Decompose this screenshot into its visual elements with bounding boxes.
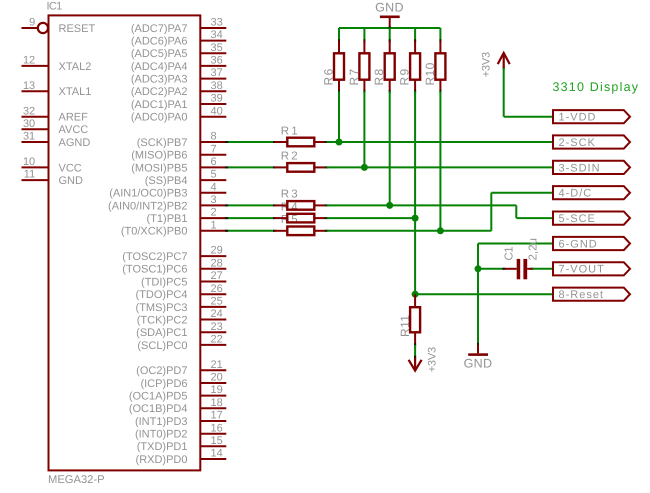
- wire net GND vertical: [477, 244, 479, 347]
- svg-text:22: 22: [211, 334, 223, 346]
- svg-text:28: 28: [211, 257, 223, 269]
- svg-text:R3: R3: [281, 189, 300, 201]
- wire pin to R1: [225, 141, 276, 143]
- resistor R7 label: [347, 67, 361, 85]
- IC1 pin 33 (ADC7)PA7: [131, 17, 226, 35]
- svg-text:27: 27: [211, 270, 223, 282]
- wire R10 top lead to GND bus: [439, 28, 441, 43]
- svg-text:9: 9: [29, 17, 35, 29]
- wire net PB1 row (R4 to R9 column): [325, 217, 415, 219]
- svg-text:13: 13: [23, 80, 35, 92]
- supply +3V3 (top) arrow: [498, 53, 510, 68]
- svg-text:GND: GND: [464, 357, 493, 371]
- resistor R5: [274, 227, 326, 236]
- svg-text:AREF: AREF: [59, 112, 89, 124]
- svg-text:15: 15: [211, 435, 223, 447]
- svg-text:5-SCE: 5-SCE: [559, 213, 596, 225]
- wire net SCE vertical jog: [515, 205, 517, 218]
- svg-text:1: 1: [211, 219, 217, 231]
- svg-text:+3V3: +3V3: [481, 52, 493, 77]
- svg-text:37: 37: [211, 67, 223, 79]
- IC1 pin 3 (AIN0/INT2)PB2: [108, 194, 226, 212]
- wire R6 bottom lead down: [338, 90, 340, 142]
- svg-text:(ADC2)PA2: (ADC2)PA2: [131, 86, 188, 98]
- IC1 pin 6 (MOSI)PB5: [131, 156, 226, 174]
- wire +3V3 vertical (top): [503, 66, 505, 116]
- svg-text:(TDI)PC5: (TDI)PC5: [141, 276, 187, 288]
- wire pin to R2: [225, 166, 276, 168]
- svg-text:(ADC5)PA5: (ADC5)PA5: [131, 48, 188, 60]
- resistor R11 label: [398, 315, 412, 337]
- svg-text:(ADC4)PA4: (ADC4)PA4: [131, 61, 188, 73]
- svg-text:16: 16: [211, 422, 223, 434]
- resistor R6: [334, 41, 344, 92]
- svg-text:21: 21: [211, 359, 223, 371]
- svg-text:XTAL2: XTAL2: [59, 61, 92, 73]
- svg-text:(ICP)PD6: (ICP)PD6: [140, 378, 187, 390]
- svg-text:2: 2: [211, 207, 217, 219]
- capacitor C1 value label 2,2u: [528, 238, 540, 260]
- svg-text:2,2u: 2,2u: [528, 238, 540, 260]
- wire net SDIN row (R2 to 3-SDIN flag): [325, 166, 553, 168]
- resistor R10: [435, 41, 445, 92]
- svg-text:R4: R4: [281, 201, 300, 213]
- net flag 3-SDIN: [553, 161, 630, 175]
- svg-text:R5: R5: [281, 214, 300, 226]
- IC1 pin 36 (ADC4)PA4: [131, 55, 226, 73]
- svg-text:(ADC0)PA0: (ADC0)PA0: [131, 112, 188, 124]
- IC1 pin 38 (ADC2)PA2: [131, 80, 226, 98]
- IC1 pin 9 RESET: [22, 17, 96, 35]
- resistor R3: [274, 201, 326, 210]
- svg-text:(OC2)PD7: (OC2)PD7: [136, 365, 187, 377]
- wire R7 bottom lead down: [363, 90, 365, 167]
- resistor R1 label: [281, 125, 300, 137]
- IC1 pin 22 (SCL)PC0: [137, 334, 226, 352]
- svg-text:12: 12: [23, 55, 35, 67]
- wire GND bus horizontal: [339, 26, 440, 29]
- svg-text:5: 5: [211, 169, 217, 181]
- wire net VDD row to 1-VDD flag: [504, 116, 553, 118]
- wire net GND row to 6-GND flag: [478, 243, 553, 245]
- junction R5/R10 node: [437, 227, 444, 234]
- svg-text:3310 Display: 3310 Display: [553, 80, 640, 94]
- resistor R3 label: [281, 189, 300, 201]
- supply +3V3 (bottom) label: [427, 347, 439, 372]
- junction R3/R8 node: [386, 202, 393, 209]
- IC1 pin 19 (OC1A)PD5: [129, 384, 226, 402]
- IC1 pin 15 (TXD)PD1: [137, 435, 227, 453]
- IC1 pin 39 (ADC1)PA1: [131, 93, 226, 111]
- resistor R5 label: [281, 214, 300, 226]
- svg-text:(ADC6)PA6: (ADC6)PA6: [131, 36, 188, 48]
- capacitor C1 name label: [503, 247, 515, 261]
- resistor R4 label: [281, 201, 300, 213]
- svg-text:23: 23: [211, 321, 223, 333]
- svg-text:6-GND: 6-GND: [559, 238, 598, 250]
- svg-text:38: 38: [211, 80, 223, 92]
- IC1 pin 26 (TDO)PC4: [136, 283, 227, 301]
- svg-text:C1: C1: [503, 247, 515, 261]
- IC1 pin 34 (ADC6)PA6: [131, 29, 226, 47]
- svg-text:GND: GND: [59, 175, 84, 187]
- svg-text:R2: R2: [281, 151, 300, 163]
- svg-text:AGND: AGND: [59, 137, 91, 149]
- svg-text:(TMS)PC3: (TMS)PC3: [136, 302, 188, 314]
- IC1 pin 28 (TOSC1)PC6: [122, 257, 226, 275]
- svg-text:(INT1)PD3: (INT1)PD3: [135, 416, 188, 428]
- svg-text:29: 29: [211, 245, 223, 257]
- supply +3V3 (top) label: [481, 52, 493, 77]
- junction GND/C1 node: [475, 265, 482, 272]
- IC1 pin 23 (SDA)PC1: [136, 321, 226, 339]
- svg-text:+3V3: +3V3: [427, 347, 439, 372]
- IC1 pin 40 (ADC0)PA0: [131, 105, 226, 123]
- IC1 value label MEGA32-P: [48, 474, 105, 486]
- svg-text:4: 4: [211, 181, 217, 193]
- svg-text:(AIN1/OC0)PB3: (AIN1/OC0)PB3: [109, 188, 187, 200]
- text label 3310 Display: [553, 80, 640, 94]
- resistor R1: [274, 138, 326, 147]
- ground GND (top, pull-up bus): [375, 1, 404, 28]
- svg-text:30: 30: [23, 118, 35, 130]
- IC1 pin 2 (T1)PB1: [147, 207, 227, 225]
- svg-text:26: 26: [211, 283, 223, 295]
- junction R9/R11/Reset node: [412, 291, 419, 298]
- svg-text:(AIN0/INT2)PB2: (AIN0/INT2)PB2: [108, 200, 187, 212]
- IC1 pin 17 (INT1)PD3: [135, 410, 226, 428]
- IC1 pin 25 (TMS)PC3: [136, 296, 227, 314]
- svg-text:35: 35: [211, 42, 223, 54]
- svg-text:MEGA32-P: MEGA32-P: [48, 474, 105, 486]
- svg-text:R1: R1: [281, 125, 300, 137]
- wire R7 top lead to GND bus: [363, 28, 365, 43]
- svg-text:GND: GND: [375, 1, 404, 15]
- svg-text:(TOSC2)PC7: (TOSC2)PC7: [122, 251, 187, 263]
- wire C1 left lead: [478, 268, 506, 270]
- svg-text:25: 25: [211, 296, 223, 308]
- svg-text:(ADC7)PA7: (ADC7)PA7: [131, 23, 188, 35]
- wire C1 right lead to 7-VOUT flag: [531, 268, 553, 270]
- IC1 pin 21 (OC2)PD7: [136, 359, 226, 377]
- svg-text:14: 14: [211, 448, 223, 460]
- net flag 4-D/C: [553, 186, 630, 200]
- IC1 pin 31 AGND: [22, 131, 91, 149]
- svg-text:RESET: RESET: [59, 23, 96, 35]
- IC1 pin 30 AVCC: [22, 118, 89, 136]
- net flag 7-VOUT: [553, 262, 630, 276]
- net flag 8-Reset: [553, 288, 630, 302]
- net flag 1-VDD: [553, 110, 630, 124]
- IC IC1 MEGA32-P body: [49, 15, 201, 470]
- svg-text:10: 10: [23, 156, 35, 168]
- net flag 6-GND: [553, 237, 630, 251]
- wire net SCK row (R1 to 2-SCK flag): [325, 141, 553, 143]
- resistor R7: [359, 41, 369, 92]
- svg-text:(SCK)PB7: (SCK)PB7: [137, 137, 188, 149]
- IC1 pin 37 (ADC3)PA3: [131, 67, 226, 85]
- resistor R9 label: [398, 67, 412, 85]
- IC1 pin 1 (T0/XCK)PB0: [121, 219, 226, 237]
- IC1 pin 11 GND: [22, 169, 84, 187]
- wire net RESET row to 8-Reset flag: [415, 293, 553, 295]
- IC1 pin 27 (TDI)PC5: [141, 270, 226, 288]
- svg-text:(ADC1)PA1: (ADC1)PA1: [131, 99, 188, 111]
- IC1 name label: [47, 0, 63, 12]
- resistor R4: [274, 214, 326, 223]
- svg-text:34: 34: [211, 29, 223, 41]
- wire pin to R4: [225, 217, 276, 219]
- svg-text:40: 40: [211, 105, 223, 117]
- wire R9 bottom lead down: [414, 90, 416, 218]
- svg-text:1-VDD: 1-VDD: [559, 112, 597, 124]
- resistor R2 label: [281, 151, 300, 163]
- resistor R10 label: [423, 62, 437, 85]
- IC1 pin 18 (OC1B)PD4: [129, 397, 226, 415]
- svg-text:VCC: VCC: [59, 162, 82, 174]
- wire net SCE to 5-SCE flag: [516, 217, 553, 219]
- wire net DC row (R5 to vertical jog): [325, 230, 491, 232]
- resistor R2: [274, 163, 326, 172]
- wire net DC to 4-D/C flag: [491, 192, 553, 194]
- resistor R8: [385, 41, 395, 92]
- svg-text:11: 11: [24, 169, 35, 181]
- svg-text:8-Reset: 8-Reset: [559, 289, 605, 301]
- IC1 pin 24 (TCK)PC2: [137, 308, 227, 326]
- wire R9 top lead to GND bus: [414, 28, 416, 43]
- svg-text:(OC1A)PD5: (OC1A)PD5: [129, 391, 188, 403]
- wire net SCE row from R3: [325, 204, 516, 206]
- wire net DC vertical jog: [490, 193, 492, 231]
- svg-text:3: 3: [211, 194, 217, 206]
- net flag 5-SCE: [553, 212, 630, 226]
- svg-text:(TCK)PC2: (TCK)PC2: [137, 314, 188, 326]
- svg-text:(RXD)PD0: (RXD)PD0: [136, 454, 188, 466]
- svg-text:(ADC3)PA3: (ADC3)PA3: [131, 74, 188, 86]
- svg-text:(TOSC1)PC6: (TOSC1)PC6: [122, 264, 187, 276]
- junction R4/R9 node: [412, 215, 419, 222]
- svg-text:33: 33: [211, 17, 223, 29]
- IC1 pin 13 XTAL1: [22, 80, 92, 98]
- capacitor C1: [504, 259, 532, 279]
- resistor R8 label: [372, 67, 386, 85]
- wire R8 top lead to GND bus: [389, 28, 391, 43]
- svg-text:7: 7: [211, 143, 217, 155]
- wire R8 bottom lead down: [389, 90, 391, 205]
- wire pin to R5: [225, 230, 276, 232]
- resistor R6 label: [322, 67, 336, 85]
- svg-text:2-SCK: 2-SCK: [559, 137, 596, 149]
- IC1 pin 12 XTAL2: [22, 55, 92, 73]
- supply +3V3 (bottom) arrow: [409, 358, 422, 371]
- ground GND (bottom): [464, 345, 493, 371]
- IC1 pin 20 (ICP)PD6: [140, 372, 226, 390]
- svg-text:17: 17: [211, 410, 223, 422]
- svg-text:(T1)PB1: (T1)PB1: [147, 213, 188, 225]
- svg-text:(SS)PB4: (SS)PB4: [145, 175, 188, 187]
- IC1 pin 35 (ADC5)PA5: [131, 42, 226, 60]
- svg-text:(MOSI)PB5: (MOSI)PB5: [131, 162, 187, 174]
- svg-text:3-SDIN: 3-SDIN: [559, 162, 601, 174]
- svg-text:(TDO)PC4: (TDO)PC4: [136, 289, 188, 301]
- net flag 2-SCK: [553, 135, 630, 149]
- wire R10 bottom lead down: [439, 90, 441, 231]
- junction R2/R7 node: [361, 164, 368, 171]
- svg-text:(TXD)PD1: (TXD)PD1: [137, 441, 188, 453]
- IC1 pin 7 (MISO)PB6: [131, 143, 226, 161]
- svg-text:20: 20: [211, 372, 223, 384]
- IC1 pin 4 (AIN1/OC0)PB3: [109, 181, 226, 199]
- svg-text:(SDA)PC1: (SDA)PC1: [136, 327, 187, 339]
- svg-text:7-VOUT: 7-VOUT: [559, 264, 605, 276]
- svg-text:31: 31: [23, 131, 35, 143]
- IC1 pin 8 (SCK)PB7: [137, 131, 227, 149]
- IC1 pin 5 (SS)PB4: [145, 169, 227, 187]
- svg-text:19: 19: [211, 384, 223, 396]
- IC1 pin 16 (INT0)PD2: [135, 422, 226, 440]
- IC1 pin 10 VCC: [22, 156, 82, 174]
- svg-text:(OC1B)PD4: (OC1B)PD4: [129, 403, 188, 415]
- svg-text:36: 36: [211, 55, 223, 67]
- resistor R11: [410, 294, 420, 345]
- svg-text:24: 24: [211, 308, 223, 320]
- svg-text:18: 18: [211, 397, 223, 409]
- svg-text:(SCL)PC0: (SCL)PC0: [137, 340, 187, 352]
- IC1 pin 14 (RXD)PD0: [136, 448, 227, 466]
- IC1 pin 32 AREF: [22, 105, 89, 123]
- wire pin to R3: [225, 204, 276, 206]
- svg-text:(INT0)PD2: (INT0)PD2: [135, 429, 188, 441]
- wire R6 top lead to GND bus: [338, 28, 340, 43]
- IC1 pin 29 (TOSC2)PC7: [122, 245, 226, 263]
- svg-text:32: 32: [23, 105, 35, 117]
- resistor R9: [410, 41, 420, 92]
- svg-text:(MISO)PB6: (MISO)PB6: [131, 150, 187, 162]
- svg-text:39: 39: [211, 93, 223, 105]
- svg-text:IC1: IC1: [47, 0, 63, 12]
- svg-text:4-D/C: 4-D/C: [559, 188, 593, 200]
- svg-text:6: 6: [211, 156, 217, 168]
- wire net RESET vertical (R9 column down): [414, 218, 416, 294]
- wire R11 to +3V3 (bottom): [414, 343, 416, 359]
- svg-text:AVCC: AVCC: [59, 124, 89, 136]
- junction R1/R6 node: [336, 139, 343, 146]
- svg-text:8: 8: [211, 131, 217, 143]
- svg-text:XTAL1: XTAL1: [59, 86, 92, 98]
- svg-text:(T0/XCK)PB0: (T0/XCK)PB0: [121, 226, 188, 238]
